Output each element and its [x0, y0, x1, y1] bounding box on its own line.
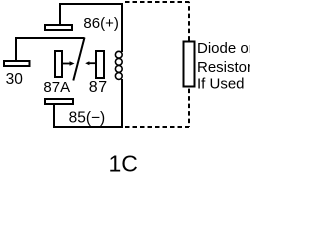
wire bottom horizontal	[54, 126, 123, 128]
coil winding loop 1	[115, 51, 122, 58]
terminal 87A bar	[55, 51, 62, 77]
dashed wire top	[125, 1, 189, 3]
svg-text:30: 30	[6, 71, 24, 88]
coil winding loop 3	[115, 66, 122, 73]
svg-text:87A: 87A	[43, 79, 70, 96]
arrow at 87 contact	[89, 62, 95, 64]
terminal 85 bar	[45, 99, 73, 104]
dashed wire bottom	[125, 126, 189, 128]
diode or resistor box	[184, 42, 195, 87]
arrow at 87A contact	[63, 63, 71, 65]
wire coil line lower segment	[121, 79, 123, 128]
svg-text:Diode or: Diode or	[197, 40, 250, 57]
svg-text:1C: 1C	[109, 151, 138, 176]
coil winding loop 2	[115, 58, 122, 65]
wire from terminal 30 up	[15, 38, 17, 60]
svg-text:87: 87	[89, 79, 108, 96]
wire from 30 to switch arm	[15, 37, 85, 39]
wire top horizontal to coil	[59, 3, 122, 5]
svg-text:Resistor: Resistor	[197, 59, 250, 76]
svg-text:85(−): 85(−)	[69, 110, 106, 127]
dashed wire right	[188, 2, 190, 127]
terminal 87 bar	[96, 51, 104, 78]
wire from terminal 85 down	[53, 105, 55, 128]
wire coil line upper segment	[121, 3, 123, 52]
terminal 86 bar	[45, 25, 72, 30]
coil winding loop 4	[115, 73, 122, 80]
wire from terminal 86 up	[59, 4, 61, 24]
svg-text:86(+): 86(+)	[83, 15, 118, 32]
svg-text:If Used: If Used	[197, 75, 245, 92]
terminal 30 bar	[4, 61, 30, 66]
switch arm	[73, 38, 84, 81]
